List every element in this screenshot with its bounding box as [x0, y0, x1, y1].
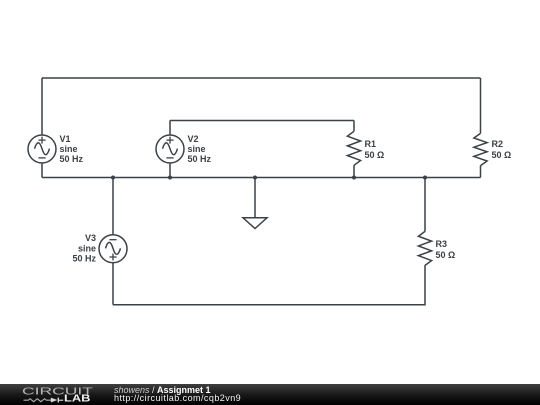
voltage source V2 [156, 121, 184, 178]
voltage source V1 [28, 135, 56, 178]
svg-text:sine: sine [60, 144, 78, 154]
label R3 [436, 239, 456, 260]
label V2 [188, 134, 212, 164]
ground [243, 178, 267, 229]
node junction V2-rail [168, 176, 172, 180]
svg-text:50 Hz: 50 Hz [60, 154, 84, 164]
svg-text:50 Ω: 50 Ω [436, 250, 456, 260]
resistor R2 [474, 78, 487, 178]
label V1 [60, 134, 84, 164]
resistor R1 [347, 121, 360, 178]
label R2 [492, 139, 512, 160]
node junction V3-rail [111, 176, 115, 180]
node junction R3-rail [423, 176, 427, 180]
wire left riser [41, 78, 43, 135]
logo resistor squiggle [24, 399, 54, 402]
footer bar [0, 384, 540, 405]
svg-text:R3: R3 [436, 239, 448, 249]
node junction ground-rail [253, 176, 257, 180]
svg-text:V2: V2 [188, 134, 199, 144]
voltage source V3 [99, 178, 127, 305]
svg-text:sine: sine [78, 244, 96, 254]
svg-text:50 Hz: 50 Hz [72, 254, 96, 264]
svg-text:50 Ω: 50 Ω [492, 150, 512, 160]
label R1 [365, 139, 385, 160]
svg-text:V1: V1 [60, 134, 71, 144]
svg-text:sine: sine [188, 144, 206, 154]
svg-text:V3: V3 [85, 233, 96, 243]
wire middle rail [42, 177, 481, 179]
svg-text:50 Hz: 50 Hz [188, 154, 212, 164]
resistor R3 [418, 178, 431, 266]
svg-text:LAB: LAB [64, 394, 91, 405]
wire top rail [42, 77, 481, 79]
svg-text:R2: R2 [492, 139, 504, 149]
svg-text:50 Ω: 50 Ω [365, 150, 385, 160]
label V3 [72, 233, 96, 264]
logo diode [51, 398, 63, 403]
wire V2 to R1 [170, 120, 354, 122]
svg-text:http://circuitlab.com/cqb2vn9: http://circuitlab.com/cqb2vn9 [114, 393, 241, 403]
node junction R1-rail [352, 176, 356, 180]
svg-text:R1: R1 [365, 139, 377, 149]
wire bottom loop [113, 265, 425, 305]
